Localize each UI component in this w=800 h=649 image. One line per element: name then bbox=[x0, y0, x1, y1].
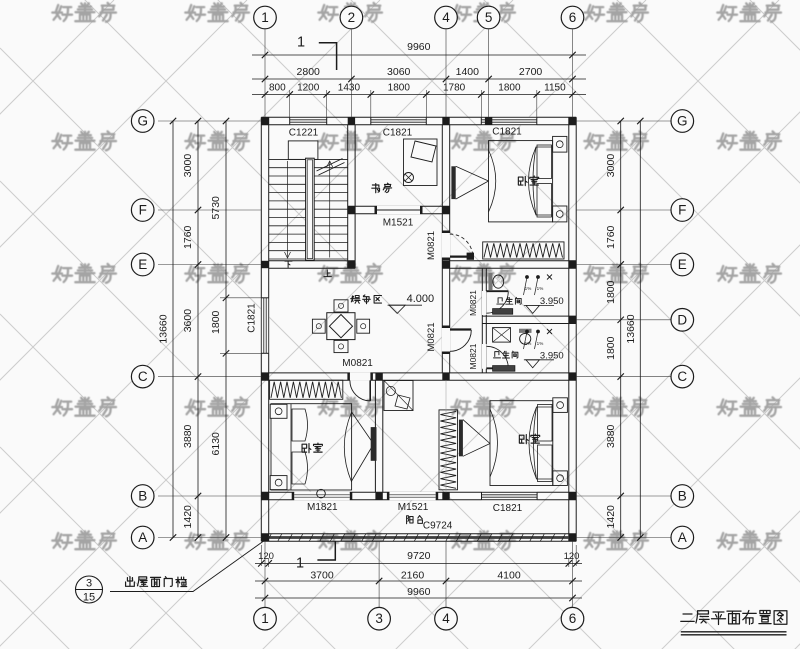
svg-text:M0821: M0821 bbox=[426, 322, 437, 351]
lower bathroom toilet bbox=[519, 329, 532, 333]
svg-text:4100: 4100 bbox=[497, 570, 521, 582]
svg-text:D: D bbox=[677, 312, 687, 327]
svg-text:1760: 1760 bbox=[605, 225, 617, 249]
door M0821 axis4 wall to bedroom1 bbox=[442, 233, 451, 258]
svg-text:9960: 9960 bbox=[407, 586, 431, 598]
study desk and chair bbox=[404, 139, 438, 186]
wall axis F bbox=[348, 205, 450, 207]
svg-text:F: F bbox=[139, 203, 147, 218]
watermark grid 好盖房 bbox=[52, 3, 781, 550]
bottom axis bubbles bbox=[254, 607, 277, 630]
right dimension lines bbox=[576, 120, 671, 122]
svg-text:120: 120 bbox=[258, 551, 274, 562]
svg-text:1760: 1760 bbox=[182, 225, 194, 249]
svg-text:A: A bbox=[138, 530, 147, 545]
svg-text:3: 3 bbox=[86, 578, 92, 590]
svg-text:3700: 3700 bbox=[310, 570, 334, 582]
svg-text:E: E bbox=[138, 257, 147, 272]
balcony label bbox=[407, 516, 423, 524]
svg-text:1800: 1800 bbox=[605, 280, 617, 304]
bedroom1 bed bbox=[489, 141, 553, 222]
study label bbox=[372, 183, 392, 193]
lower bathroom labels bbox=[493, 351, 517, 358]
wall axis 4 bbox=[441, 125, 443, 373]
svg-text:6: 6 bbox=[569, 10, 577, 25]
svg-text:5730: 5730 bbox=[210, 196, 222, 220]
door M0821 upper bathroom bbox=[482, 291, 487, 315]
svg-text:1%: 1% bbox=[525, 341, 532, 346]
svg-text:3000: 3000 bbox=[182, 154, 194, 178]
svg-text:3880: 3880 bbox=[605, 424, 617, 448]
bedroom2 label bbox=[519, 434, 539, 444]
svg-text:F: F bbox=[678, 203, 686, 218]
door M0821 axis4 wall to bath corridor bbox=[442, 328, 451, 352]
svg-text:1780: 1780 bbox=[443, 82, 466, 93]
svg-text:4: 4 bbox=[442, 10, 450, 25]
exterior wall right (axis 6) bbox=[568, 117, 570, 541]
left axis bubbles bbox=[131, 110, 154, 133]
svg-text:1800: 1800 bbox=[605, 336, 617, 360]
svg-text:M1521: M1521 bbox=[383, 218, 414, 229]
svg-text:1%: 1% bbox=[537, 341, 544, 346]
callout label and leader bbox=[126, 577, 187, 587]
bedroom1 nightstands bbox=[553, 136, 567, 152]
svg-text:1: 1 bbox=[296, 556, 304, 572]
svg-text:1: 1 bbox=[261, 611, 269, 626]
svg-text:1150: 1150 bbox=[544, 82, 566, 93]
svg-text:C9724: C9724 bbox=[423, 521, 453, 532]
drawing title bbox=[681, 610, 787, 624]
wall axis C bbox=[261, 372, 576, 374]
stair upper break rectangle bbox=[288, 141, 318, 160]
dressing table bbox=[384, 381, 413, 411]
window C1821 top wall (study) bbox=[371, 117, 427, 126]
recreation label bbox=[351, 295, 382, 304]
svg-text:C: C bbox=[677, 369, 687, 384]
wall axis E left segment (stair edge) bbox=[269, 260, 355, 262]
dressing room tv panel bbox=[459, 420, 463, 457]
exterior wall top (axis G) bbox=[261, 116, 576, 118]
upper bathroom vanity bbox=[493, 309, 513, 315]
svg-text:C1821: C1821 bbox=[493, 503, 523, 514]
svg-text:1: 1 bbox=[297, 35, 305, 51]
svg-text:1200: 1200 bbox=[297, 82, 320, 93]
detail callout circle 3/15 bbox=[76, 576, 103, 603]
lower bathroom vanity bbox=[493, 366, 515, 372]
wall axis E right segment bbox=[442, 260, 576, 262]
svg-text:9720: 9720 bbox=[407, 550, 431, 562]
svg-text:2160: 2160 bbox=[401, 570, 425, 582]
svg-text:6130: 6130 bbox=[210, 432, 222, 456]
svg-text:4: 4 bbox=[442, 611, 450, 626]
axis line 4 through dressing room bbox=[445, 380, 447, 492]
svg-text:800: 800 bbox=[269, 82, 286, 93]
svg-text:C1221: C1221 bbox=[289, 128, 319, 139]
svg-text:M0821: M0821 bbox=[426, 231, 437, 260]
bedroom2 bed bbox=[490, 401, 553, 486]
dressing mirror on axis3 wall bbox=[371, 427, 377, 461]
door M1521 wall F (study) bbox=[377, 206, 420, 215]
svg-text:2700: 2700 bbox=[519, 66, 543, 78]
svg-text:C1821: C1821 bbox=[247, 303, 258, 333]
window C1821 top wall (bedroom) bbox=[481, 117, 537, 126]
svg-text:5: 5 bbox=[485, 10, 493, 25]
svg-text:C: C bbox=[138, 369, 148, 384]
door M1521 wall B (dressing to balcony) bbox=[389, 492, 435, 501]
svg-text:13660: 13660 bbox=[158, 314, 170, 343]
svg-text:3060: 3060 bbox=[387, 66, 411, 78]
wall axis B bbox=[261, 491, 576, 493]
door M1821 wall B (bedroom 3 to balcony) bbox=[294, 492, 350, 501]
svg-text:E: E bbox=[678, 257, 687, 272]
upper bathroom labels bbox=[497, 297, 521, 304]
svg-text:G: G bbox=[677, 114, 688, 129]
svg-text:2800: 2800 bbox=[297, 66, 321, 78]
svg-text:1430: 1430 bbox=[338, 82, 361, 93]
bedroom3 label bbox=[302, 443, 322, 453]
dressing room wardrobe bbox=[439, 410, 458, 490]
lower bathroom drain marks bbox=[526, 330, 529, 333]
svg-text:B: B bbox=[678, 489, 687, 504]
svg-text:120: 120 bbox=[564, 551, 580, 562]
upper bathroom toilet bbox=[489, 273, 493, 290]
svg-text:M0821: M0821 bbox=[468, 290, 478, 316]
svg-text:1: 1 bbox=[261, 10, 269, 25]
stair center rail bbox=[306, 158, 315, 260]
bedroom2 nightstands bbox=[553, 398, 568, 413]
svg-text:M1521: M1521 bbox=[398, 502, 429, 513]
svg-text:1420: 1420 bbox=[605, 505, 617, 529]
balcony parapet hatch bbox=[267, 534, 576, 541]
bedroom3 bed bbox=[271, 404, 352, 490]
bedroom2 fold lines bbox=[463, 420, 490, 444]
left dimension lines bbox=[158, 120, 261, 122]
bedroom3 nightstands bbox=[270, 404, 287, 418]
svg-text:C1821: C1821 bbox=[492, 127, 522, 138]
svg-text:13660: 13660 bbox=[625, 314, 637, 343]
svg-text:C1821: C1821 bbox=[383, 128, 413, 139]
balcony parapet (axis A) bbox=[261, 533, 576, 535]
svg-text:1800: 1800 bbox=[388, 82, 411, 93]
svg-text:6: 6 bbox=[569, 611, 577, 626]
bedroom1 wardrobe bbox=[483, 242, 564, 259]
bedroom1 tv panel bbox=[451, 166, 455, 199]
window C1821 wall B (bedroom 2) bbox=[482, 492, 538, 501]
bottom dimension lines bbox=[264, 541, 266, 607]
upper bathroom shower drain marks bbox=[526, 276, 529, 279]
stair break line bbox=[317, 159, 343, 172]
svg-text:1%: 1% bbox=[525, 286, 532, 291]
svg-text:M0821: M0821 bbox=[342, 358, 373, 369]
svg-text:3000: 3000 bbox=[605, 154, 617, 178]
bedroom3 wardrobe bbox=[270, 380, 343, 399]
svg-text:3: 3 bbox=[375, 611, 383, 626]
svg-text:9960: 9960 bbox=[407, 41, 431, 53]
svg-text:3600: 3600 bbox=[182, 309, 194, 333]
bathroom west partition wall bbox=[481, 268, 483, 373]
stair direction lines bbox=[287, 161, 289, 258]
wall axis 3 (bedroom divider) bbox=[374, 380, 376, 492]
svg-text:1420: 1420 bbox=[182, 505, 194, 529]
top axis bubbles bbox=[254, 6, 277, 29]
svg-text:3880: 3880 bbox=[182, 424, 194, 448]
svg-text:G: G bbox=[137, 114, 148, 129]
stair up/down labels bbox=[285, 261, 292, 267]
window C1821 left wall (recreation) bbox=[261, 298, 270, 354]
right axis bubbles bbox=[671, 110, 694, 133]
svg-text:M0821: M0821 bbox=[468, 343, 478, 369]
exterior wall left (axis 1) bbox=[260, 117, 262, 541]
bedroom3 fold lines to mirror bbox=[352, 412, 374, 444]
svg-text:15: 15 bbox=[83, 592, 95, 604]
svg-text:A: A bbox=[678, 530, 687, 545]
bedroom1 label bbox=[518, 176, 538, 186]
svg-text:2: 2 bbox=[348, 10, 356, 25]
lower bathroom shower bbox=[493, 328, 511, 343]
staircase bbox=[269, 158, 348, 160]
window C1221 top wall bbox=[290, 117, 327, 126]
svg-text:B: B bbox=[138, 489, 147, 504]
mahjong table with chairs bbox=[327, 313, 355, 340]
svg-text:M1821: M1821 bbox=[307, 502, 338, 513]
wall axis 2 (stair/study divider) bbox=[347, 125, 349, 269]
svg-text:1800: 1800 bbox=[210, 310, 222, 334]
door M0821 wall C (recreation to dressing) bbox=[350, 372, 371, 381]
door M0821 lower bathroom bbox=[482, 344, 487, 369]
svg-text:1800: 1800 bbox=[498, 82, 521, 93]
svg-text:4.000: 4.000 bbox=[407, 293, 435, 305]
svg-text:1%: 1% bbox=[537, 286, 544, 291]
svg-text:1400: 1400 bbox=[456, 66, 480, 78]
wall axis D (bathrooms divider) bbox=[482, 315, 576, 317]
top dimension lines bbox=[264, 30, 266, 118]
structural columns (black) bbox=[261, 117, 268, 124]
